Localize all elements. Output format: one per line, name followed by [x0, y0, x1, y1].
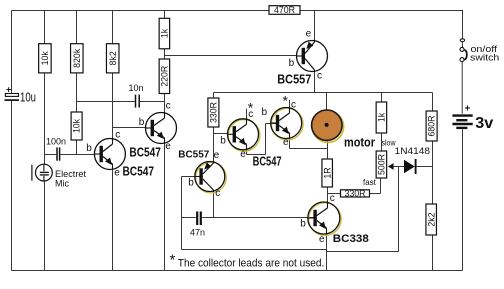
svg-text:c: c	[317, 70, 322, 81]
svg-text:e: e	[240, 149, 246, 160]
svg-text:500R: 500R	[377, 154, 387, 175]
svg-text:e: e	[165, 141, 171, 152]
svg-text:b: b	[300, 218, 306, 229]
svg-text:3v: 3v	[475, 115, 493, 132]
svg-text:fast: fast	[363, 178, 377, 187]
svg-text:10n: 10n	[129, 83, 144, 93]
svg-text:47n: 47n	[190, 228, 205, 238]
svg-text:BC557: BC557	[277, 72, 311, 87]
svg-text:c: c	[291, 100, 296, 111]
svg-text:*: *	[283, 93, 289, 109]
svg-text:BC547: BC547	[253, 154, 282, 169]
svg-text:e: e	[114, 168, 120, 179]
svg-text:c: c	[330, 193, 335, 204]
svg-text:c: c	[115, 130, 120, 141]
svg-text:slow: slow	[382, 139, 396, 148]
svg-text:+: +	[465, 104, 471, 115]
svg-text:b: b	[289, 58, 295, 69]
svg-text:switch: switch	[470, 52, 499, 62]
svg-text:b: b	[220, 136, 226, 147]
svg-text:c: c	[248, 109, 253, 120]
svg-text:c: c	[215, 188, 220, 199]
svg-text:330R: 330R	[209, 102, 219, 123]
svg-text:2k2: 2k2	[426, 212, 436, 226]
svg-text:8k2: 8k2	[108, 51, 118, 65]
svg-text:e: e	[306, 28, 312, 39]
svg-text:e: e	[214, 150, 220, 161]
svg-text:680R: 680R	[427, 115, 437, 136]
svg-text:The collector leads are not us: The collector leads are not used.	[178, 258, 324, 270]
svg-text:BC557: BC557	[178, 150, 209, 161]
svg-text:10k: 10k	[40, 51, 50, 66]
svg-text:b: b	[86, 143, 92, 154]
svg-text:c: c	[166, 101, 171, 112]
svg-text:820k: 820k	[72, 48, 82, 68]
svg-text:e: e	[283, 137, 289, 148]
svg-text:1k: 1k	[377, 112, 387, 122]
svg-text:1R: 1R	[322, 167, 332, 178]
svg-text:Mic: Mic	[55, 179, 69, 189]
svg-text:220R: 220R	[160, 66, 170, 87]
svg-text:BC547: BC547	[129, 144, 161, 159]
svg-text:BC338: BC338	[333, 233, 369, 245]
svg-text:e: e	[319, 234, 325, 245]
svg-text:100n: 100n	[46, 137, 66, 147]
svg-text:b: b	[188, 178, 194, 189]
svg-text:1k: 1k	[160, 28, 170, 38]
svg-text:BC547: BC547	[123, 163, 155, 178]
svg-text:10k: 10k	[72, 118, 82, 133]
svg-text:Electret: Electret	[55, 169, 87, 179]
svg-text:motor: motor	[344, 135, 375, 150]
svg-text:10u: 10u	[20, 90, 36, 104]
svg-text:+: +	[6, 84, 11, 94]
svg-text:470R: 470R	[274, 5, 295, 15]
svg-text:b: b	[262, 107, 268, 118]
svg-text:330R: 330R	[344, 189, 365, 199]
svg-text:1N4148: 1N4148	[395, 146, 430, 157]
svg-text:b: b	[139, 117, 145, 128]
svg-text:*: *	[170, 252, 176, 269]
